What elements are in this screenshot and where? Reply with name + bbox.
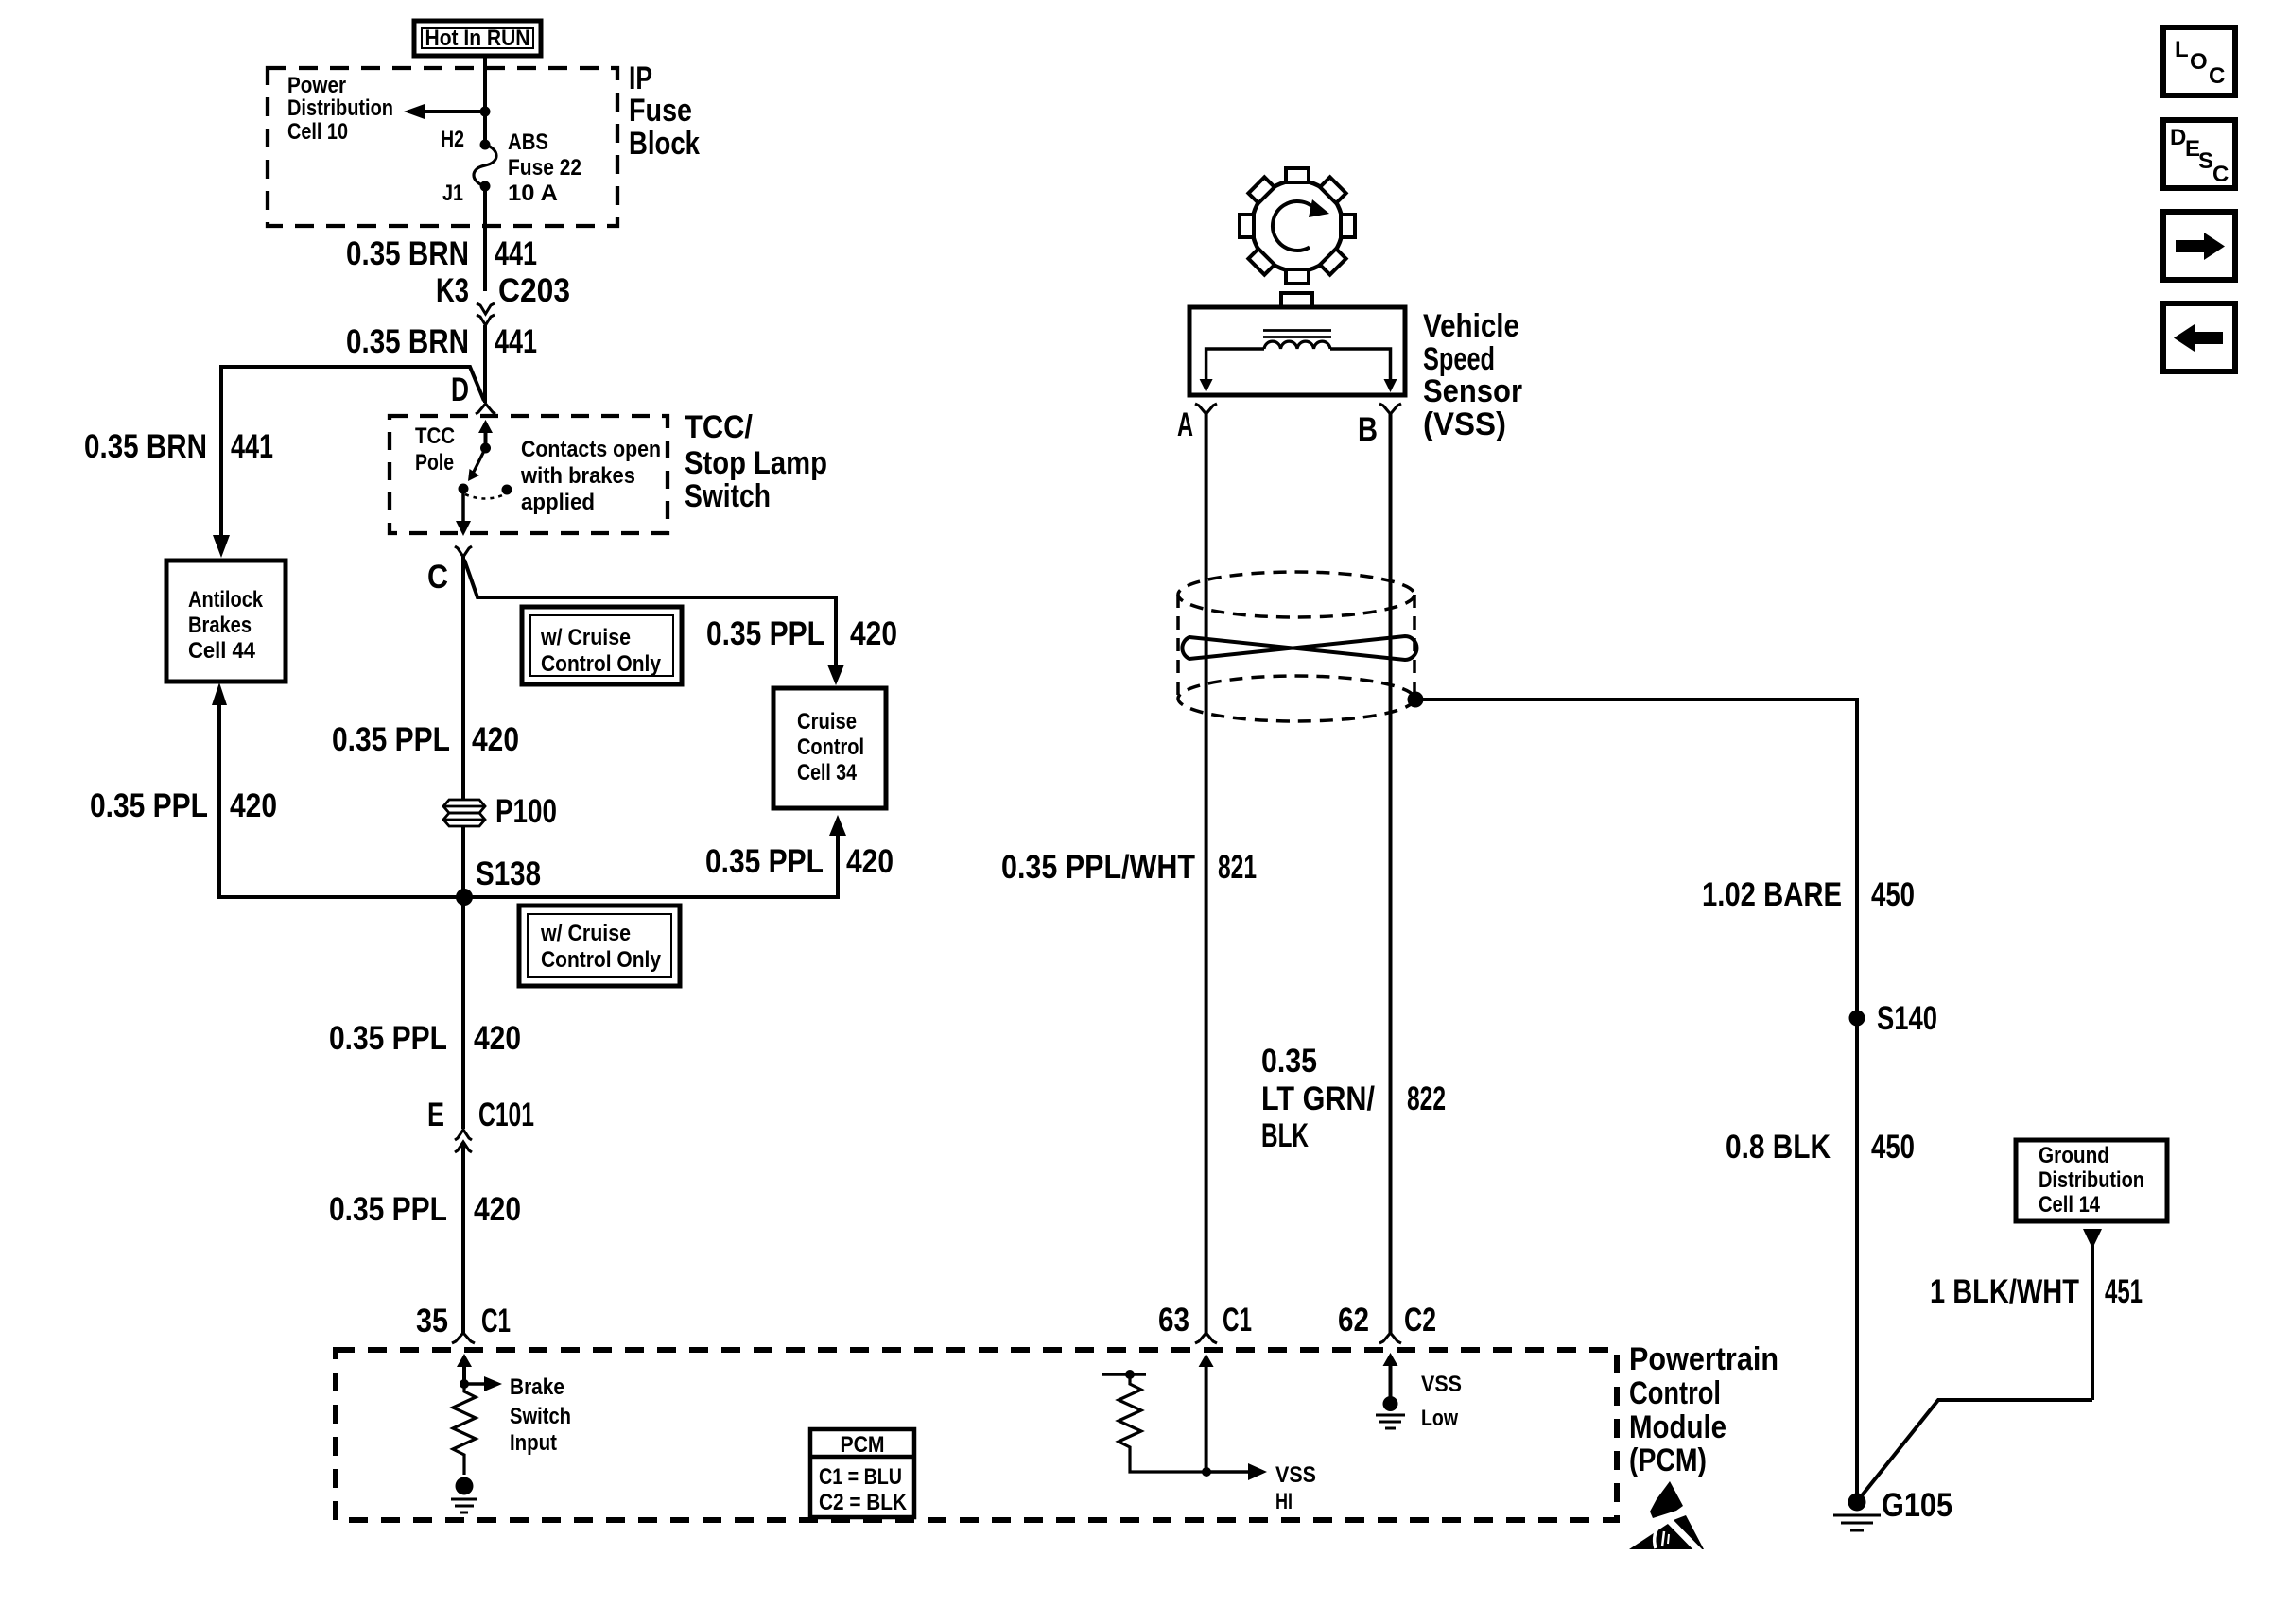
svg-text:(VSS): (VSS) (1423, 406, 1506, 442)
svg-text:C1: C1 (481, 1303, 511, 1339)
ground at brake switch resistor (451, 1477, 477, 1513)
wire 420 S138 to C101 (461, 897, 465, 1129)
svg-text:35: 35 (416, 1303, 448, 1339)
svg-text:C: C (2212, 162, 2229, 187)
nav button next (right arrow) (2163, 212, 2235, 280)
svg-text:K3: K3 (436, 272, 469, 309)
svg-text:G105: G105 (1882, 1487, 1952, 1524)
Cruise Control Cell 34 box (773, 688, 886, 808)
splice S138 dot (456, 889, 473, 906)
svg-text:IP: IP (629, 60, 652, 96)
dashed contact-open arc (465, 494, 505, 499)
svg-text:420: 420 (846, 843, 894, 880)
svg-text:Powertrain: Powertrain (1629, 1341, 1778, 1377)
VSS reluctor gear (1240, 168, 1355, 284)
text Contacts open with brakes applied (520, 437, 661, 515)
svg-text:822: 822 (1407, 1080, 1446, 1117)
wire S138 to cruise control (lower) with up arrow (464, 815, 846, 897)
svg-text:Cell 14: Cell 14 (2039, 1192, 2101, 1218)
nav button LOC (2163, 27, 2235, 95)
shielding dashed cylinder (1178, 572, 1414, 721)
svg-text:Cruise: Cruise (797, 709, 857, 734)
PCM legend box (810, 1429, 914, 1517)
connector C chevron (455, 546, 472, 557)
svg-text:HI: HI (1275, 1489, 1293, 1514)
resistor VSS HI (1119, 1374, 1206, 1472)
svg-text:Pole: Pole (415, 450, 454, 475)
brake switch input junction and arrow (460, 1376, 502, 1391)
svg-text:Switch: Switch (510, 1404, 571, 1429)
label 0.35 PPL 420 (above P100) (332, 721, 519, 758)
svg-text:with brakes: with brakes (520, 463, 635, 489)
svg-text:ABS: ABS (508, 130, 548, 155)
text VSS HI (1275, 1462, 1316, 1514)
connector chevron at VSS B (1379, 404, 1401, 414)
svg-text:821: 821 (1218, 849, 1257, 886)
switch output arrow (down) (456, 489, 471, 536)
svg-text:420: 420 (230, 787, 277, 824)
svg-text:C1: C1 (1223, 1302, 1252, 1339)
pin 35 and connector label C1 (416, 1303, 511, 1339)
svg-text:0.35 PPL: 0.35 PPL (329, 1191, 447, 1228)
ground G105 (1833, 1494, 1881, 1531)
svg-text:441: 441 (495, 323, 537, 360)
svg-text:Hot In RUN: Hot In RUN (425, 26, 530, 51)
brake input entry arrow (up) (457, 1354, 472, 1384)
svg-text:VSS: VSS (1275, 1462, 1316, 1488)
wire 822 VSS B to PCM 62 (1389, 414, 1393, 1333)
label 1.02 BARE 450 (1702, 876, 1915, 913)
label 0.35 PPL/WHT 821 (1001, 849, 1257, 886)
shield drain junction dot (1408, 692, 1424, 708)
arrow into Antilock Brakes box (213, 535, 230, 558)
svg-text:D: D (2170, 125, 2186, 150)
svg-text:Switch: Switch (685, 478, 771, 514)
connector C101 chevrons (455, 1130, 472, 1152)
svg-text:0.35 BRN: 0.35 BRN (84, 428, 207, 465)
svg-text:S140: S140 (1877, 1000, 1937, 1037)
svg-text:TCC/: TCC/ (685, 409, 753, 445)
svg-text:0.35 BRN: 0.35 BRN (346, 323, 469, 360)
nav button DESC (2163, 120, 2235, 188)
wire S138 to Antilock (left) with up arrow (212, 682, 464, 897)
rotation arrow inside gear (1273, 199, 1329, 251)
VSS connector tab (1281, 293, 1312, 307)
pin 62 and connector label C2 (PCM) (1338, 1302, 1436, 1339)
VSS internal leads with arrows (1200, 349, 1397, 392)
svg-text:C101: C101 (478, 1097, 534, 1133)
svg-text:Brake: Brake (510, 1374, 564, 1400)
label 0.35 PPL 420 (left of S138) (90, 787, 277, 824)
wire 441 from fuse to C203 (483, 186, 487, 291)
connector chevron at 62 C2 (1379, 1333, 1401, 1343)
svg-text:O: O (2190, 49, 2208, 75)
IP Fuse Block dashed box (268, 68, 617, 226)
pin 63 and connector label C1 (PCM) (1158, 1302, 1252, 1339)
svg-text:L: L (2175, 37, 2189, 62)
svg-text:LT GRN/: LT GRN/ (1261, 1080, 1375, 1117)
label 0.35 PPL 420 (cruise branch upper) (706, 615, 897, 652)
svg-text:BLK: BLK (1261, 1117, 1309, 1154)
svg-text:E: E (427, 1097, 444, 1133)
svg-text:Control: Control (1629, 1375, 1721, 1411)
branch arrow to Power Distribution Cell 10 (404, 104, 491, 119)
svg-text:S138: S138 (476, 855, 541, 892)
label 1 BLK/WHT 451 (1930, 1273, 2143, 1310)
svg-text:451: 451 (2105, 1273, 2143, 1310)
arrow into Cruise Control box (down) (827, 665, 844, 685)
fuse ABS Fuse 22 10 A (474, 140, 496, 192)
svg-text:C2 = BLK: C2 = BLK (819, 1490, 908, 1515)
VSS Low entry arrow (up) (1383, 1353, 1398, 1397)
svg-text:Sensor: Sensor (1423, 373, 1522, 409)
svg-text:0.35 PPL: 0.35 PPL (329, 1020, 447, 1057)
component name Powertrain Control Module (PCM) (1629, 1341, 1778, 1478)
label 0.35 PPL 420 (above 35 C1) (329, 1191, 521, 1228)
svg-text:C: C (427, 559, 448, 596)
label 0.35 BRN 441 (above C203) (346, 235, 537, 272)
pull-up resistor bar (1102, 1370, 1146, 1379)
svg-text:420: 420 (474, 1191, 521, 1228)
power feed label box Hot In RUN (414, 21, 541, 56)
ESD sensitive device symbol (1629, 1481, 1707, 1559)
component name TCC/ Stop Lamp Switch (685, 409, 827, 514)
svg-text:B: B (1358, 411, 1378, 448)
branch wire 420 to cruise control (464, 560, 836, 669)
switch input arrow (up) (478, 420, 493, 448)
connector C203 chevrons (477, 303, 495, 325)
svg-text:(PCM): (PCM) (1629, 1443, 1707, 1478)
svg-text:62: 62 (1338, 1302, 1369, 1339)
splice S140 dot (1849, 1011, 1865, 1027)
text Brake Switch Input (510, 1374, 571, 1456)
label 0.35 PPL 420 (above C101) (329, 1020, 521, 1057)
svg-text:Module: Module (1629, 1409, 1726, 1445)
connector chevron at 63 C1 (1195, 1333, 1217, 1343)
svg-text:J1: J1 (442, 181, 463, 206)
switch pivot dot (480, 443, 491, 454)
svg-text:Ground: Ground (2039, 1143, 2109, 1168)
svg-text:w/ Cruise: w/ Cruise (540, 625, 631, 650)
in-line connector P100 (443, 800, 485, 826)
VSS HI junction dot and arrow (1202, 1463, 1267, 1480)
wire 420 C101 to PCM (461, 1142, 465, 1333)
svg-text:Speed: Speed (1423, 341, 1495, 377)
wire 420 P100 to S138 (461, 826, 465, 897)
label Power Distribution Cell 10 (287, 73, 393, 145)
svg-text:0.35 BRN: 0.35 BRN (346, 235, 469, 272)
svg-text:w/ Cruise: w/ Cruise (540, 921, 631, 946)
svg-text:0.35 PPL: 0.35 PPL (332, 721, 450, 758)
wire 821 VSS A to PCM 63 (1205, 414, 1208, 1333)
svg-text:Low: Low (1421, 1406, 1458, 1431)
svg-text:Fuse 22: Fuse 22 (508, 155, 581, 181)
fuse value label ABS Fuse 22 10 A (508, 130, 581, 206)
svg-text:Distribution: Distribution (287, 95, 393, 121)
svg-text:0.8 BLK: 0.8 BLK (1726, 1129, 1831, 1166)
connector chevron at VSS A (1195, 404, 1217, 414)
svg-text:VSS: VSS (1421, 1372, 1462, 1397)
label 0.35 BRN 441 (below C203) (346, 323, 537, 360)
ground VSS Low (1376, 1396, 1405, 1428)
label 0.35 LT GRN/ BLK 822 (1261, 1043, 1446, 1154)
Powertrain Control Module dashed box (336, 1350, 1617, 1520)
svg-text:0.35: 0.35 (1261, 1043, 1317, 1080)
component name IP Fuse Block (629, 60, 700, 162)
wire 451 to ground G105 (1859, 1400, 2092, 1499)
svg-text:Stop Lamp: Stop Lamp (685, 445, 827, 481)
svg-text:450: 450 (1871, 1129, 1915, 1166)
resistor brake switch input (453, 1384, 476, 1475)
Ground Distribution Cell 14 box (2016, 1140, 2167, 1221)
switch blade TCC Pole (468, 448, 486, 481)
svg-text:Cell 10: Cell 10 (287, 119, 348, 145)
svg-text:Control Only: Control Only (541, 947, 662, 973)
svg-text:420: 420 (474, 1020, 521, 1057)
Vehicle Speed Sensor box (1189, 307, 1405, 395)
svg-text:10 A: 10 A (508, 181, 558, 206)
condition box w/ Cruise Control Only (lower) (519, 906, 680, 986)
svg-text:Fuse: Fuse (629, 93, 692, 129)
label 0.35 PPL 420 (cruise branch lower) (705, 843, 894, 880)
condition box w/ Cruise Control Only (upper) (522, 607, 682, 684)
svg-text:0.35 PPL/WHT: 0.35 PPL/WHT (1001, 849, 1195, 886)
text VSS Low (1421, 1372, 1462, 1431)
TCC/Stop Lamp Switch dashed box (390, 416, 668, 533)
drain wire to ground run (1415, 700, 1857, 1494)
svg-text:420: 420 (850, 615, 897, 652)
wire 420 from C to P100 (461, 557, 465, 800)
svg-text:Contacts open: Contacts open (521, 437, 661, 462)
VSS pickup core lines (1263, 331, 1331, 337)
svg-text:H2: H2 (441, 127, 464, 152)
text TCC Pole (415, 423, 455, 475)
svg-text:A: A (1177, 406, 1193, 443)
svg-text:Control Only: Control Only (541, 651, 662, 677)
svg-text:C2: C2 (1404, 1302, 1436, 1339)
VSS pickup coil (1264, 341, 1330, 349)
svg-text:63: 63 (1158, 1302, 1189, 1339)
svg-text:Control: Control (797, 734, 864, 760)
VSS HI entry arrow (up) (1199, 1354, 1214, 1472)
svg-text:Block: Block (629, 126, 700, 162)
wire 441 from C203 to D (483, 325, 487, 403)
svg-text:TCC: TCC (415, 423, 455, 449)
label 0.35 BRN 441 (left branch) (84, 428, 273, 465)
wire from Hot In RUN into fuse block (483, 56, 487, 146)
branch wire 441 to Antilock Brakes (221, 367, 484, 536)
svg-text:Cell 34: Cell 34 (797, 760, 858, 786)
svg-text:1.02 BARE: 1.02 BARE (1702, 876, 1842, 913)
svg-text:0.35 PPL: 0.35 PPL (705, 843, 824, 880)
svg-text:Vehicle: Vehicle (1423, 308, 1519, 344)
svg-text:P100: P100 (495, 793, 557, 830)
svg-text:1 BLK/WHT: 1 BLK/WHT (1930, 1273, 2079, 1310)
connector D chevron (476, 404, 495, 414)
svg-text:441: 441 (495, 235, 537, 272)
svg-text:C1 = BLU: C1 = BLU (819, 1464, 902, 1490)
svg-text:D: D (451, 371, 469, 408)
switch contact dots (459, 484, 512, 495)
svg-text:Power: Power (287, 73, 346, 98)
pin K3 and connector label C203 (436, 272, 570, 309)
svg-text:420: 420 (472, 721, 519, 758)
nav button prev (left arrow) (2163, 303, 2235, 371)
pin E and connector label C101 (427, 1097, 534, 1133)
connector chevron at 35 C1 (452, 1333, 475, 1343)
twisted pair symbol (1182, 636, 1416, 660)
svg-text:Distribution: Distribution (2039, 1167, 2144, 1193)
svg-text:441: 441 (231, 428, 273, 465)
svg-text:applied: applied (521, 490, 595, 515)
svg-text:0.35 PPL: 0.35 PPL (706, 615, 824, 652)
component name Vehicle Speed Sensor (VSS) (1423, 308, 1522, 442)
svg-text:Input: Input (510, 1430, 557, 1456)
text Antilock Brakes Cell 44 (188, 587, 264, 664)
svg-text:PCM: PCM (841, 1432, 885, 1458)
svg-text:C: C (2209, 63, 2225, 89)
label 0.8 BLK 450 (1726, 1129, 1915, 1166)
svg-text:450: 450 (1871, 876, 1915, 913)
svg-text:Cell 44: Cell 44 (188, 638, 256, 664)
arrow from Ground Distribution (down) (2083, 1229, 2102, 1400)
svg-text:Antilock: Antilock (188, 587, 264, 613)
Antilock Brakes Cell 44 box (166, 561, 286, 682)
svg-text:0.35 PPL: 0.35 PPL (90, 787, 208, 824)
svg-text:Brakes: Brakes (188, 613, 252, 638)
svg-text:S: S (2198, 148, 2213, 174)
svg-text:C203: C203 (498, 272, 570, 309)
